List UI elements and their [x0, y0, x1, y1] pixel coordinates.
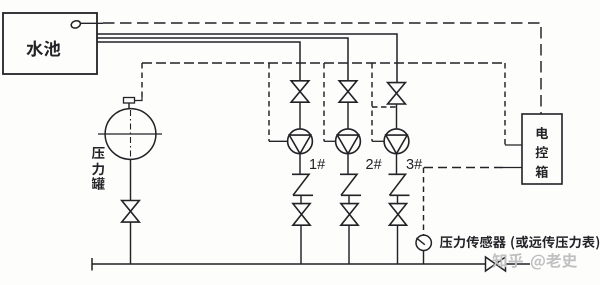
dashed wire down to pressure sensor	[423, 168, 425, 235]
inlet valve V1a	[291, 81, 309, 102]
wire from level switch	[80, 22, 103, 24]
dashed control wire to pump P3 motor	[371, 63, 373, 141]
water tank label 水池	[26, 40, 60, 56]
outlet valve V3b	[389, 204, 406, 226]
suction pipe to pump 2	[97, 38, 348, 81]
dashed control wire to pump P2 motor	[323, 63, 325, 141]
outlet valve V1b	[293, 204, 310, 226]
inlet valve V3a	[388, 83, 406, 104]
dashed drop wire to tank pressure switch	[141, 63, 143, 97]
pressure sensor gauge PG1	[416, 235, 431, 250]
pipe after valve V5	[506, 263, 531, 265]
svg-text:3#: 3#	[406, 157, 422, 173]
pipe valve V1b to main pipe	[300, 225, 302, 264]
pipe check valve to valve V1b	[300, 195, 302, 204]
pipe valve V2a to pump P2	[347, 102, 349, 130]
pipe pump P2 to check valve	[347, 154, 349, 175]
solid end of sensor wire	[503, 167, 522, 169]
pipe check valve to valve V3b	[397, 195, 399, 204]
suction pipe to pump 1	[97, 42, 300, 81]
pipe pump P3 to check valve	[396, 154, 398, 175]
pump P2	[336, 129, 361, 154]
sensor label 压力传感器 (或远传压力表)	[440, 236, 599, 250]
pipe check valve to valve V2b	[348, 195, 350, 204]
water tank T1 (水池)	[3, 13, 97, 74]
dashed control wire to pump P1 motor	[268, 63, 270, 141]
watermark 知乎 @老史	[492, 253, 577, 269]
control bus corner drop to control box	[504, 63, 506, 145]
check valve Z2	[340, 174, 361, 195]
svg-text:1#: 1#	[309, 157, 325, 173]
dashed level-signal wire to control box	[103, 23, 541, 114]
pump P3	[384, 129, 409, 154]
tank vertical dash-dot centerline	[130, 110, 132, 158]
inlet valve V2a	[339, 81, 357, 102]
pipe from valve V4 to main	[130, 222, 132, 264]
dashed sensor signal wire to control box	[424, 167, 503, 169]
pump P1	[288, 129, 313, 154]
dashed control bus wire	[142, 62, 505, 64]
outlet valve V2b	[341, 204, 358, 226]
tank horizontal centerline	[98, 133, 162, 135]
stub from fitting to tank top	[128, 103, 130, 109]
control box U1 (电控箱)	[522, 114, 562, 184]
gauge needle	[416, 238, 424, 245]
wire into control box left	[505, 144, 522, 146]
pressure tank label 压力罐	[92, 147, 105, 190]
main pipe left end cap	[91, 258, 93, 271]
check valve Z1	[292, 174, 313, 195]
pressure tank T2 (压力罐)	[105, 109, 156, 160]
main discharge pipe	[92, 263, 486, 265]
wire elbow into pump P1	[269, 140, 288, 142]
dashed control spur to valve V3a	[372, 106, 397, 108]
sensor stem to main pipe	[423, 250, 425, 264]
pipe valve V3b to main pipe	[397, 225, 399, 264]
pressure switch fitting PS1 on tank	[124, 98, 135, 104]
tank outlet pipe	[130, 159, 132, 201]
suction pipe to pump 3	[97, 34, 397, 83]
pipe valve V1a to pump P1	[299, 102, 301, 130]
connector to pressure switch fitting	[135, 97, 143, 101]
svg-text:2#: 2#	[366, 157, 382, 173]
wire elbow into pump P3	[372, 140, 384, 142]
float level switch LS1	[70, 20, 81, 30]
check valve Z3	[389, 174, 410, 195]
valve V4 under pressure tank	[122, 201, 140, 223]
pipe valve V3a to pump P3	[396, 104, 398, 130]
pipe valve V2b to main pipe	[348, 225, 350, 264]
wire elbow into pump P2	[324, 140, 336, 142]
pipe pump P1 to check valve	[299, 154, 301, 175]
main pipe valve V5	[486, 257, 506, 271]
control box label 电控箱	[535, 127, 548, 178]
